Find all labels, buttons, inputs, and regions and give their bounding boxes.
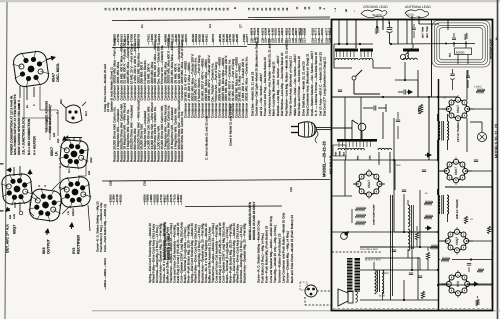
resistor AVC filter bbox=[424, 215, 433, 218]
socket 6SQ7 DET AVC bbox=[0, 172, 34, 206]
svg-text:2ND I.F. TRANS: 2ND I.F. TRANS bbox=[456, 199, 459, 219]
svg-text:SEC: SEC bbox=[357, 155, 360, 160]
svg-text:Dial Cord (27″ Long) (Mounted: Dial Cord (27″ Long) (Mounted on Gang) 2… bbox=[323, 57, 327, 116]
parts list rules bbox=[112, 19, 330, 21]
coil bank labels bbox=[345, 156, 348, 160]
screw list lower left 2 bbox=[96, 201, 107, 252]
svg-text:Back and Tube Chart—Model 23 (: Back and Tube Chart—Model 23 (Push Butto… bbox=[290, 215, 294, 283]
svg-text:BLACK & RED: BLACK & RED bbox=[365, 259, 381, 262]
lower part number columns bbox=[108, 194, 112, 205]
svg-text:I.F.: I.F. bbox=[55, 151, 59, 156]
svg-text:800: 800 bbox=[60, 99, 63, 104]
capacitor plate bypass bbox=[474, 160, 478, 162]
6SQ7 pin stubs bbox=[13, 167, 15, 176]
svg-text:—49641 —49652 —76231: —49641 —49652 —76231 bbox=[104, 258, 107, 290]
wire 6SK7 plate to border bbox=[465, 170, 492, 172]
resistor diode load bbox=[424, 201, 433, 204]
svg-text:(Used in Model 21 and 23 only): (Used in Model 21 and 23 only) bbox=[228, 104, 232, 146]
model label MODEL 20-21-23 455 KC IF bbox=[322, 140, 327, 177]
svg-text:6SQ7: 6SQ7 bbox=[13, 225, 17, 234]
cap mid bbox=[404, 90, 406, 95]
osc grid cap circle bbox=[358, 123, 366, 131]
svg-text:AVC: AVC bbox=[396, 164, 401, 167]
svg-text:COMP: COMP bbox=[373, 211, 376, 218]
6SK7 top bracket wires bbox=[67, 138, 69, 142]
lower parts description block bbox=[148, 223, 152, 283]
svg-text:GND: GND bbox=[90, 157, 93, 163]
wire 6SQ7 grid bbox=[438, 240, 447, 242]
ground lead balloon bbox=[0, 0, 1, 1]
socket column web wires bbox=[40, 86, 58, 136]
svg-text:Bracket Assy—Speaker Mtg. 20 —: Bracket Assy—Speaker Mtg. 20 —Part Mfg. bbox=[242, 223, 246, 283]
extra wires bottom middle bbox=[360, 246, 438, 248]
svg-text:6K6: 6K6 bbox=[42, 247, 46, 254]
svg-text:N.C.= NO CONNECTION: N.C.= NO CONNECTION bbox=[27, 118, 31, 155]
resistor grid stopper bbox=[477, 269, 484, 272]
resistor plate load bbox=[464, 216, 467, 224]
volume control bbox=[341, 233, 348, 240]
svg-text:H: H bbox=[56, 112, 59, 114]
svg-text:—60576: —60576 bbox=[184, 34, 188, 45]
wire tube to border bbox=[467, 108, 492, 110]
6SK7 tiny labels bbox=[90, 157, 93, 163]
inter-socket wires bbox=[32, 192, 38, 198]
svg-text:DET. AVC 1ˢᵀ A.F.: DET. AVC 1ˢᵀ A.F. bbox=[6, 224, 10, 253]
svg-text:—86579: —86579 bbox=[211, 34, 215, 45]
lower right parts columns bbox=[256, 220, 260, 283]
wire 6SQ7 plate bbox=[466, 240, 492, 242]
socket 5Y3 RECTIFIER bbox=[58, 175, 93, 210]
svg-text:C17—40590: C17—40590 bbox=[304, 27, 307, 43]
loop inner components bbox=[452, 38, 456, 40]
svg-text:BLK: BLK bbox=[449, 52, 452, 57]
svg-text:6SA7: 6SA7 bbox=[456, 105, 460, 113]
socket 6SA7 OSC MOD bbox=[11, 49, 51, 89]
extra schematic wires middle bbox=[397, 20, 399, 44]
candohm resistor stack bbox=[355, 207, 366, 210]
svg-text:BLUE: BLUE bbox=[379, 295, 385, 298]
svg-text:—89405: —89405 bbox=[235, 34, 239, 45]
svg-text:B: B bbox=[233, 7, 237, 9]
power plug bbox=[299, 122, 317, 137]
tube 6K6 bbox=[444, 270, 471, 297]
speaker bbox=[338, 289, 348, 306]
1st IF transformer bbox=[438, 121, 440, 140]
svg-text:6SA7: 6SA7 bbox=[52, 73, 56, 82]
svg-text:—85290: —85290 bbox=[118, 194, 122, 205]
svg-text:6SK7: 6SK7 bbox=[50, 147, 54, 156]
svg-text:GRN: GRN bbox=[339, 151, 342, 156]
parts list top part-number row bbox=[105, 7, 108, 10]
output transformer bbox=[375, 270, 377, 294]
svg-text:4.99: 4.99 bbox=[13, 214, 16, 219]
svg-text:BLACK: BLACK bbox=[373, 13, 383, 17]
part number columns upper bbox=[113, 34, 117, 45]
svg-text:H: H bbox=[38, 185, 41, 187]
svg-text:RECTIFIER: RECTIFIER bbox=[77, 235, 81, 254]
antenna trimmer cluster bbox=[421, 27, 424, 38]
junction block pictorial bbox=[66, 105, 82, 123]
tube 6SA7 top right bbox=[444, 95, 471, 122]
svg-text:6SQ7: 6SQ7 bbox=[455, 237, 459, 245]
small top annotations bbox=[334, 10, 337, 12]
svg-text:OSC: OSC bbox=[369, 155, 372, 160]
capacitor screen bypass bbox=[467, 264, 471, 266]
svg-text:H = HEATER: H = HEATER bbox=[33, 136, 37, 155]
resistor back bias bbox=[476, 299, 479, 306]
on-off switch bbox=[352, 76, 356, 80]
wire B+ to 6SA7 bbox=[438, 96, 458, 98]
socket 6SK7 IF bbox=[58, 138, 90, 170]
resistor 3 MEG grid leak bbox=[419, 104, 423, 114]
wire loop to top border bbox=[447, 20, 449, 30]
svg-text:RED: RED bbox=[384, 272, 389, 275]
svg-text:OUTPUT: OUTPUT bbox=[47, 238, 51, 254]
svg-text:C11—43233: C11—43233 bbox=[321, 28, 324, 43]
svg-text:C19: C19 bbox=[290, 187, 293, 192]
main parts description block bbox=[113, 38, 117, 100]
resistor 2 MEG AVC bbox=[476, 89, 485, 93]
bottom faint rule bbox=[92, 310, 500, 312]
capacitor audio coupling bbox=[392, 250, 396, 252]
below-loop trimmers bbox=[450, 74, 454, 76]
svg-text:240: 240 bbox=[53, 132, 56, 137]
top scan edge band bbox=[0, 0, 500, 2]
svg-text:ANTENNA LEAD: ANTENNA LEAD bbox=[405, 5, 431, 9]
svg-text:GROUND LEAD: GROUND LEAD bbox=[363, 5, 388, 9]
svg-text:—31621: —31621 bbox=[179, 194, 183, 205]
svg-text:ANTENNA LOOP: ANTENNA LOOP bbox=[489, 39, 492, 59]
wire 6K6 grid bbox=[438, 283, 448, 285]
right page edge rule bbox=[497, 0, 499, 319]
svg-text:Knob—Push Button Mfg. —49641 (: Knob—Push Button Mfg. —49641 (2) bbox=[103, 204, 107, 252]
svg-text:MODELS 20, 21, 23: MODELS 20, 21, 23 bbox=[495, 124, 499, 158]
svg-text:COMP: COMP bbox=[373, 204, 376, 211]
upper right parts block bbox=[250, 71, 254, 116]
svg-text:TAN: TAN bbox=[335, 151, 338, 156]
svg-text:240: 240 bbox=[88, 170, 91, 175]
svg-text:C4: C4 bbox=[208, 24, 212, 28]
tube 6SA7 osc mod big bbox=[354, 169, 384, 199]
electrolytic condensers bbox=[347, 258, 353, 292]
svg-text:SEC. TRIM: SEC. TRIM bbox=[426, 26, 429, 38]
svg-text:—63421: —63421 bbox=[204, 34, 208, 45]
arrows schematic bbox=[425, 152, 432, 157]
socket 6SA7 pin wires bbox=[19, 86, 21, 98]
capacitor IF coupling bbox=[422, 170, 426, 172]
svg-text:240AC: 240AC bbox=[72, 208, 75, 216]
phono connector bbox=[305, 285, 317, 297]
svg-text:C. tied on Models 21 and 23 on: C. tied on Models 21 and 23 only bbox=[204, 116, 208, 160]
svg-text:N.C.: N.C. bbox=[68, 168, 71, 173]
antenna loop bbox=[432, 21, 490, 68]
svg-text:BLUE: BLUE bbox=[407, 13, 415, 17]
svg-text:COMP: COMP bbox=[373, 218, 376, 225]
svg-text:100: 100 bbox=[18, 103, 21, 108]
svg-text:184: 184 bbox=[9, 214, 12, 219]
resistor grid return bbox=[430, 245, 439, 248]
socket 6K6 OUTPUT bbox=[27, 187, 64, 224]
svg-text:Condenser .00011 Mfd. Mica —Ce: Condenser .00011 Mfd. Mica —Ceramic Ins. bbox=[244, 56, 248, 118]
note power consumption bbox=[9, 94, 21, 155]
field coil choke bbox=[408, 205, 410, 227]
svg-text:B+2: B+2 bbox=[85, 111, 88, 116]
gang tuning condenser hatch bars + coils bbox=[335, 49, 358, 52]
svg-text:BLU: BLU bbox=[59, 163, 62, 168]
cord squiggle bbox=[315, 131, 318, 144]
svg-text:J.B.: J.B. bbox=[67, 210, 70, 215]
svg-text:Speaker (6 Inch) Models 20 and: Speaker (6 Inch) Models 20 and 21 bbox=[109, 66, 113, 112]
svg-text:ANT. TRIM: ANT. TRIM bbox=[421, 27, 424, 38]
svg-text:C2B: C2B bbox=[108, 180, 112, 186]
schematic outer border bbox=[332, 20, 493, 311]
svg-text:MODEL—-20-21-23: MODEL—-20-21-23 bbox=[322, 140, 327, 177]
B+ bus vertical bbox=[438, 79, 440, 310]
svg-text:1ST I.F. TRANS: 1ST I.F. TRANS bbox=[457, 123, 460, 142]
wires top-left bbox=[355, 20, 357, 48]
svg-text:250: 250 bbox=[57, 138, 60, 143]
long horizontal wires bbox=[332, 96, 438, 98]
note JB junction block bbox=[22, 116, 37, 155]
resistor screen dropping bbox=[441, 258, 450, 261]
wire screen node bbox=[438, 259, 440, 261]
svg-text:MODELS 21 ONLY: MODELS 21 ONLY bbox=[167, 232, 171, 260]
svg-text:3 MEG: 3 MEG bbox=[418, 107, 421, 114]
capacitor line bypass bbox=[338, 90, 342, 92]
svg-text:50000: 50000 bbox=[456, 50, 465, 54]
tube stubs bbox=[442, 108, 447, 110]
grid cap circle bbox=[400, 54, 405, 59]
svg-text:—31377: —31377 bbox=[245, 34, 249, 45]
svg-text:J.B. = JUNCTION BLOCK: J.B. = JUNCTION BLOCK bbox=[22, 116, 26, 155]
svg-text:OSC. MOD.: OSC. MOD. bbox=[56, 63, 60, 82]
svg-text:PRI: PRI bbox=[345, 156, 348, 160]
2nd IF transformer bbox=[438, 195, 440, 214]
svg-text:YELLOW & RED: YELLOW & RED bbox=[360, 248, 378, 251]
svg-text:6SK7: 6SK7 bbox=[454, 167, 458, 175]
tube 6SK7 bbox=[442, 157, 469, 184]
oscillator coil bank mid-left bbox=[337, 139, 377, 142]
wire 6SK7 grid bbox=[438, 170, 447, 172]
wire 6SA7 plate to 1st IF bbox=[466, 118, 468, 152]
wire loop to 6SA7 grid bbox=[466, 70, 468, 100]
pilot light bbox=[477, 132, 486, 141]
wire 6K6 plate bbox=[467, 283, 492, 285]
svg-text:B+: B+ bbox=[26, 104, 29, 108]
resistor cathode bias bbox=[487, 226, 490, 234]
note line bbox=[103, 64, 113, 112]
svg-text:5Y3: 5Y3 bbox=[72, 248, 76, 254]
svg-text:C1: C1 bbox=[140, 24, 144, 28]
svg-text:C7: C7 bbox=[238, 24, 242, 28]
svg-text:BLK: BLK bbox=[343, 151, 346, 156]
svg-text:6SA7: 6SA7 bbox=[367, 180, 371, 188]
right margin models text bbox=[495, 124, 499, 158]
resistor output grid bbox=[421, 291, 424, 299]
left margin rule bbox=[5, 2, 7, 319]
note measured across item bbox=[45, 101, 53, 133]
svg-text:6K6: 6K6 bbox=[456, 281, 460, 287]
part number columns upper right bbox=[250, 27, 253, 43]
capacitor tone bbox=[409, 273, 413, 275]
capacitor AVC bypass bbox=[402, 190, 406, 192]
svg-text:H: H bbox=[44, 185, 47, 187]
svg-text:2 MEG: 2 MEG bbox=[474, 86, 482, 89]
osc section coils right bbox=[403, 49, 419, 52]
stray long note lines right half bbox=[204, 116, 208, 160]
left edge ticks bbox=[0, 163, 4, 165]
svg-text:C26: C26 bbox=[142, 180, 146, 186]
misc parts headers bbox=[163, 222, 171, 260]
tube 6SQ7 bbox=[443, 227, 470, 254]
